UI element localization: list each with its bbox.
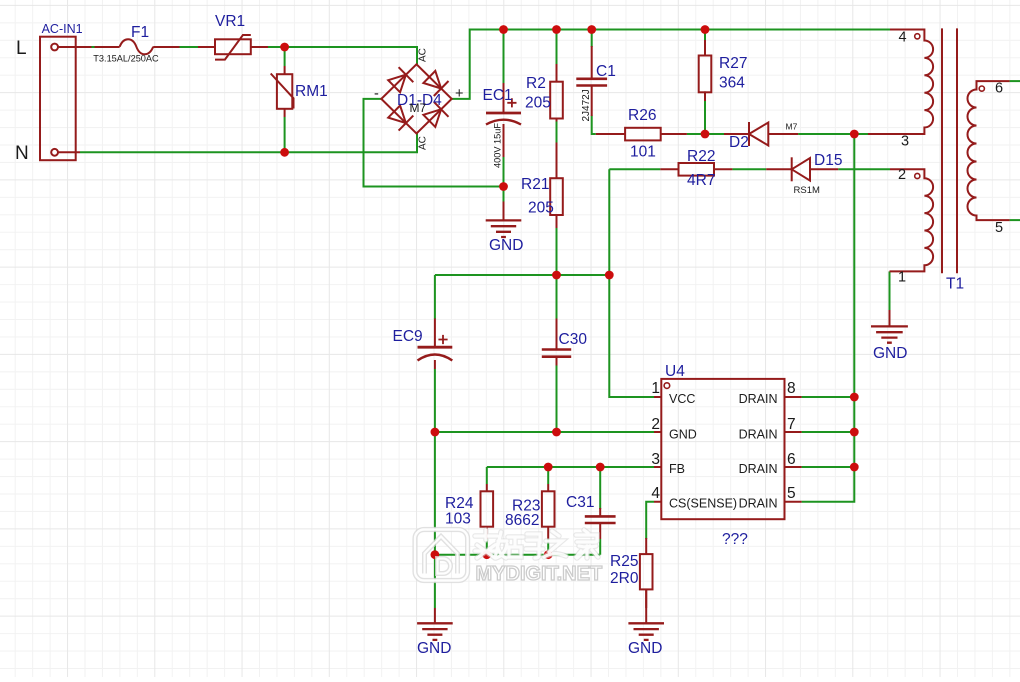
- svg-text:R27: R27: [719, 55, 747, 72]
- svg-text:N: N: [15, 143, 29, 164]
- svg-text:4: 4: [651, 485, 660, 502]
- svg-text:6: 6: [787, 451, 796, 468]
- svg-text:VR1: VR1: [215, 13, 245, 30]
- svg-text:MYDIGIT.NET: MYDIGIT.NET: [476, 563, 603, 585]
- svg-text:DRAIN: DRAIN: [739, 497, 778, 511]
- svg-text:GND: GND: [628, 640, 662, 657]
- svg-text:8662: 8662: [505, 512, 539, 529]
- svg-text:1: 1: [898, 270, 906, 286]
- svg-text:3: 3: [901, 134, 909, 150]
- svg-text:2: 2: [651, 416, 660, 433]
- svg-text:EC9: EC9: [393, 328, 423, 345]
- svg-text:T1: T1: [946, 276, 964, 293]
- svg-text:C30: C30: [559, 331, 588, 348]
- svg-text:C31: C31: [566, 494, 594, 511]
- svg-text:+: +: [455, 86, 463, 102]
- svg-text:205: 205: [525, 95, 551, 112]
- svg-text:AC-IN1: AC-IN1: [42, 22, 83, 36]
- svg-text:AC: AC: [418, 136, 429, 150]
- svg-text:FB: FB: [669, 462, 685, 476]
- svg-text:GND: GND: [873, 345, 907, 362]
- svg-text:DRAIN: DRAIN: [739, 462, 778, 476]
- svg-text:CS(SENSE): CS(SENSE): [669, 497, 737, 511]
- svg-text:AC: AC: [418, 48, 429, 62]
- svg-text:3: 3: [651, 451, 660, 468]
- svg-text:2: 2: [898, 167, 906, 183]
- svg-text:2J472J: 2J472J: [581, 89, 592, 121]
- svg-text:DRAIN: DRAIN: [739, 392, 778, 406]
- svg-text:4R7: 4R7: [687, 172, 715, 189]
- svg-text:R21: R21: [521, 176, 549, 193]
- svg-text:F1: F1: [131, 24, 149, 41]
- svg-text:7: 7: [787, 416, 796, 433]
- svg-text:400V 15uF: 400V 15uF: [493, 123, 503, 168]
- svg-text:R22: R22: [687, 148, 715, 165]
- svg-text:EC1: EC1: [483, 87, 513, 104]
- svg-text:RM1: RM1: [295, 83, 328, 100]
- svg-text:M7: M7: [410, 101, 427, 115]
- svg-text:D2: D2: [729, 134, 749, 151]
- svg-text:R25: R25: [610, 553, 638, 570]
- svg-text:1: 1: [651, 380, 660, 397]
- svg-text:364: 364: [719, 75, 745, 92]
- svg-text:205: 205: [528, 200, 554, 217]
- svg-text:C1: C1: [596, 63, 616, 80]
- svg-text:M7: M7: [786, 122, 798, 132]
- svg-text:???: ???: [722, 531, 748, 548]
- svg-text:R24: R24: [445, 495, 474, 512]
- svg-text:6: 6: [995, 81, 1003, 97]
- svg-text:T3.15AL/250AC: T3.15AL/250AC: [93, 54, 159, 64]
- svg-text:R2: R2: [526, 75, 546, 92]
- svg-text:103: 103: [445, 511, 471, 528]
- svg-text:VCC: VCC: [669, 392, 695, 406]
- svg-text:5: 5: [787, 485, 796, 502]
- svg-text:2R0: 2R0: [610, 570, 639, 587]
- svg-text:RS1M: RS1M: [794, 185, 820, 196]
- svg-text:4: 4: [899, 30, 907, 46]
- svg-text:GND: GND: [417, 640, 451, 657]
- svg-text:101: 101: [630, 144, 656, 161]
- svg-text:DRAIN: DRAIN: [739, 428, 778, 442]
- svg-text:U4: U4: [665, 363, 685, 380]
- svg-text:8: 8: [787, 380, 796, 397]
- svg-text:R26: R26: [628, 107, 656, 124]
- svg-text:GND: GND: [669, 428, 697, 442]
- svg-text:GND: GND: [489, 237, 523, 254]
- svg-text:D15: D15: [814, 152, 842, 169]
- svg-text:L: L: [16, 38, 27, 59]
- svg-text:-: -: [374, 86, 379, 102]
- svg-text:5: 5: [995, 220, 1003, 236]
